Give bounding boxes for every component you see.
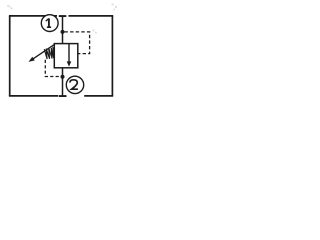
envelope boundary right edge	[111, 16, 113, 96]
wire: port 1 line down to valve square	[62, 16, 64, 44]
background	[0, 0, 122, 103]
flow path arrow inside valve square (normally closed, offset)	[67, 44, 72, 67]
watermark speckle mid-right	[93, 30, 97, 34]
spring (adjustable) on left of valve square	[44, 48, 54, 59]
junction node on port 1 line	[61, 30, 65, 34]
watermark speckle top-left	[7, 5, 12, 10]
port 1 label circle	[41, 15, 58, 32]
adjustment arrow across spring	[29, 44, 55, 62]
valve body square	[54, 44, 78, 68]
port 2 tick on bottom boundary	[59, 95, 67, 97]
envelope boundary top edge (right segment)	[69, 15, 114, 17]
envelope boundary bottom edge (right segment)	[84, 95, 113, 97]
envelope boundary bottom edge (left segment)	[9, 95, 58, 97]
port 1 tick on top boundary	[59, 15, 67, 17]
port 1 label digit 1	[46, 18, 51, 27]
drain line (dashed) from spring to outlet node	[45, 60, 60, 77]
pilot line (dashed) from node to right side of valve square	[65, 32, 90, 54]
envelope boundary left edge	[9, 16, 11, 96]
port 2 label circle	[66, 76, 83, 93]
junction node on port 2 line	[61, 75, 65, 79]
port 2 label digit 2	[70, 80, 78, 89]
wire: valve square down to port 2	[62, 68, 64, 96]
watermark speckle top-right	[112, 4, 118, 11]
envelope boundary top edge (left segment)	[9, 15, 57, 17]
